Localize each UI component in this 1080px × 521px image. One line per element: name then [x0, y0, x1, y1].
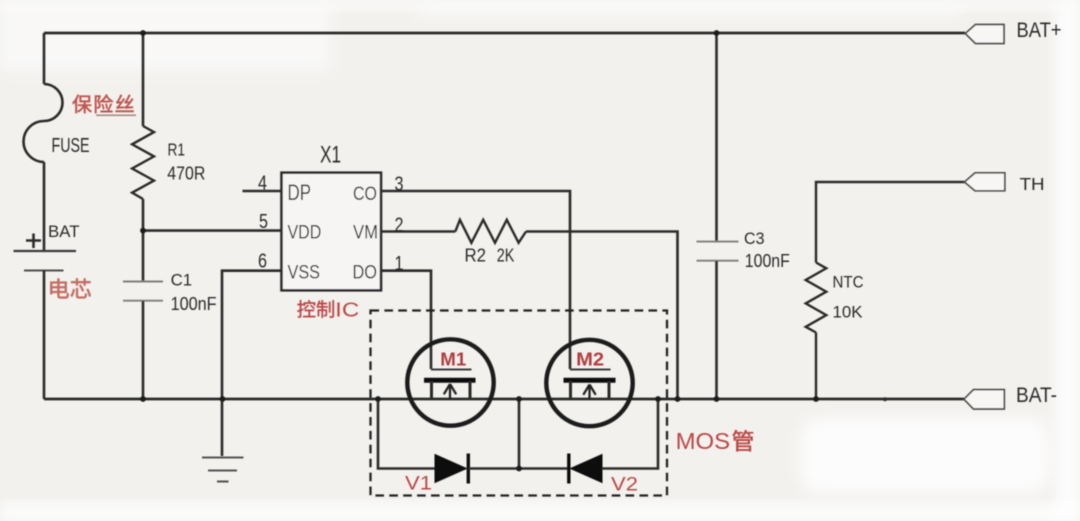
junction ground rail	[220, 396, 226, 402]
transistor M2 substrate arrow	[583, 385, 595, 400]
resistor R1	[132, 126, 154, 199]
svg-text:6: 6	[258, 251, 267, 273]
junction C1 bottom rail	[140, 396, 146, 402]
wire C3 bottom	[715, 261, 718, 399]
battery BT1 plus sign	[26, 234, 41, 249]
underline fuse label	[96, 114, 136, 116]
svg-text:CO: CO	[353, 184, 377, 205]
junction R1 VDD	[140, 228, 146, 234]
ground	[202, 456, 244, 458]
svg-text:TH: TH	[1020, 174, 1045, 194]
svg-text:4: 4	[258, 173, 267, 195]
wire center to V2	[519, 467, 569, 470]
svg-text:DO: DO	[353, 263, 378, 284]
junction C3 bottom rail	[714, 396, 720, 402]
resistor NTC R3	[806, 263, 827, 333]
svg-text:IC: IC	[335, 299, 359, 321]
wire VM pin2 to R2	[381, 230, 455, 233]
battery BT1 minus plate	[24, 270, 64, 272]
wire fuse to battery	[43, 162, 46, 250]
transistor M1 substrate arrow	[444, 384, 456, 399]
capacitor C3	[697, 241, 739, 243]
svg-text:VDD: VDD	[288, 222, 322, 243]
transistor M2 channel bar	[564, 378, 616, 383]
svg-text:1: 1	[395, 253, 404, 275]
svg-text:2K: 2K	[497, 245, 515, 265]
svg-text:V1: V1	[405, 474, 432, 495]
svg-text:VM: VM	[353, 222, 378, 243]
svg-text:BAT+: BAT+	[1017, 19, 1062, 42]
svg-text:X1: X1	[320, 142, 341, 169]
wire left battery branch upper	[43, 33, 46, 84]
wire diode row left drop	[378, 399, 435, 469]
transistor M1 channel bar	[424, 378, 476, 383]
label fuse chinese 保险丝	[72, 95, 91, 113]
svg-text:C3: C3	[744, 230, 765, 248]
label control IC chinese 控制IC	[297, 300, 315, 318]
svg-text:10K: 10K	[833, 303, 864, 322]
wire R1 bottom to C1	[142, 199, 145, 281]
junction VM rail	[675, 396, 681, 402]
junction V1 V2 mid	[516, 466, 522, 472]
wire C3 branch top	[715, 33, 718, 241]
connector TH	[965, 173, 1005, 191]
transistor M1 source drain stubs	[432, 381, 471, 399]
wire V1 to center	[468, 399, 519, 469]
fuse F1	[23, 84, 62, 162]
svg-text:C1: C1	[171, 271, 193, 289]
svg-text:BAT: BAT	[48, 222, 80, 241]
junction NTC rail	[813, 396, 819, 402]
connector BAT+	[965, 25, 1004, 44]
transistor M1 circle	[407, 339, 493, 425]
wire battery to bottom rail	[43, 271, 46, 400]
wire bottom rail BAT- net	[44, 398, 964, 401]
svg-text:100nF: 100nF	[745, 251, 790, 271]
wire R1 top	[142, 33, 145, 126]
junction diode row left	[375, 396, 381, 402]
op IC X1 box	[282, 173, 382, 291]
svg-text:BAT-: BAT-	[1016, 384, 1057, 407]
svg-text:3: 3	[395, 174, 404, 196]
wire TH branch	[816, 182, 965, 263]
svg-text:DP: DP	[288, 180, 312, 205]
svg-text:MOS: MOS	[676, 428, 731, 454]
junction diode row right	[655, 396, 661, 402]
svg-text:R2: R2	[465, 245, 487, 265]
transistor M2 source drain stubs	[571, 381, 610, 399]
svg-text:5: 5	[259, 211, 268, 233]
label cell chinese 电芯	[50, 279, 68, 299]
transistor M2 gate bar	[570, 369, 611, 371]
dashed box MOS section	[371, 311, 668, 496]
svg-text:NTC: NTC	[833, 273, 864, 292]
junction diode row mid	[516, 396, 522, 402]
wire R2 to VM vertical	[526, 232, 678, 400]
svg-text:VSS: VSS	[288, 263, 321, 284]
transistor M1 gate bar	[431, 369, 472, 371]
svg-text:2: 2	[395, 215, 404, 237]
svg-text:FUSE: FUSE	[52, 135, 90, 157]
stray junction speck on rail	[883, 397, 887, 401]
transistor M2 circle	[546, 340, 632, 426]
capacitor C1	[123, 281, 163, 283]
svg-text:V2: V2	[611, 475, 638, 496]
wire VDD pin5	[143, 229, 282, 232]
wire CO pin3 to M2 gate	[381, 191, 570, 369]
svg-text:100nF: 100nF	[171, 294, 217, 314]
junction C3 top rail	[714, 30, 720, 36]
svg-text:M1: M1	[440, 349, 466, 369]
wire V2 to right drop	[602, 399, 658, 469]
svg-text:R1: R1	[168, 140, 186, 160]
svg-text:M2: M2	[576, 349, 604, 369]
wire NTC to rail	[815, 333, 817, 400]
resistor R2	[455, 220, 526, 243]
diode V2	[571, 455, 603, 483]
svg-text:470R: 470R	[167, 164, 205, 184]
wire top rail BAT+ net	[44, 32, 965, 35]
wire VSS pin6 to ground	[222, 271, 282, 456]
diode V1	[435, 455, 467, 483]
battery BT1 plus plate	[14, 250, 77, 252]
wire DP pin4 stub	[243, 190, 282, 193]
connector BAT-	[964, 390, 1004, 409]
wire C1 to rail	[142, 301, 145, 399]
wire DO pin1 to M1 gate	[381, 271, 431, 369]
junction R1 top rail	[140, 30, 146, 36]
